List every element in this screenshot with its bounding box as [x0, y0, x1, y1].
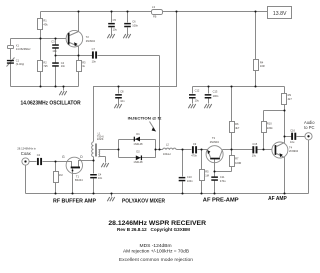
svg-text:28.1246MHz in: 28.1246MHz in: [17, 146, 36, 150]
svg-text:C16: C16: [290, 129, 295, 133]
svg-text:Rev B 26.8.12 Copyright G3XB: Rev B 26.8.12 Copyright G3XBM: [117, 227, 190, 232]
svg-text:POLYAKOV MIXER: POLYAKOV MIXER: [122, 198, 165, 204]
svg-text:D2: D2: [136, 149, 140, 153]
svg-text:C1: C1: [16, 58, 20, 62]
svg-text:4k7: 4k7: [288, 97, 293, 101]
svg-text:470u: 470u: [220, 179, 226, 183]
svg-text:to PC: to PC: [304, 125, 314, 130]
svg-text:C10: C10: [187, 175, 192, 179]
svg-text:100R: 100R: [235, 161, 241, 165]
svg-text:R5: R5: [205, 170, 209, 174]
svg-text:10R: 10R: [260, 64, 265, 68]
svg-text:100n: 100n: [213, 94, 219, 98]
svg-text:C3: C3: [51, 40, 55, 44]
svg-text:R2: R2: [43, 60, 47, 64]
svg-text:10n: 10n: [120, 99, 125, 103]
svg-text:2N3904: 2N3904: [289, 149, 299, 153]
svg-text:1N4148: 1N4148: [133, 160, 143, 164]
svg-text:C13: C13: [213, 90, 218, 94]
svg-text:G: G: [62, 155, 65, 159]
svg-text:RF BUFFER AMP: RF BUFFER AMP: [53, 198, 97, 204]
svg-text:2N3904: 2N3904: [210, 140, 220, 144]
svg-text:C6: C6: [132, 20, 136, 24]
svg-text:C4: C4: [98, 173, 102, 177]
svg-text:100n: 100n: [187, 179, 193, 183]
svg-text:10u: 10u: [290, 140, 295, 144]
svg-text:X1: X1: [16, 44, 20, 48]
svg-text:R10: R10: [267, 122, 272, 126]
svg-text:R6: R6: [235, 122, 239, 126]
svg-text:C4: C4: [61, 61, 65, 65]
svg-text:MDS -124dBm: MDS -124dBm: [140, 243, 172, 248]
svg-text:R4: R4: [260, 61, 264, 65]
svg-text:1N4148: 1N4148: [133, 142, 143, 146]
svg-text:220k: 220k: [267, 126, 273, 130]
svg-text:10u: 10u: [113, 28, 118, 32]
svg-text:C5: C5: [113, 18, 117, 22]
svg-text:1M: 1M: [59, 173, 63, 177]
svg-text:14.0623MHz OSCILLATOR: 14.0623MHz OSCILLATOR: [21, 101, 81, 107]
svg-text:10n: 10n: [92, 60, 97, 64]
svg-text:INJECTION @ f2: INJECTION @ f2: [128, 115, 163, 120]
svg-text:7k5: 7k5: [43, 64, 48, 68]
svg-text:10n: 10n: [98, 176, 103, 180]
svg-text:10n: 10n: [61, 64, 66, 68]
svg-text:R9: R9: [288, 93, 292, 97]
svg-text:FB: FB: [153, 14, 157, 18]
svg-text:(3-40p): (3-40p): [16, 62, 24, 66]
svg-text:AF PRE-AMP: AF PRE-AMP: [203, 197, 240, 203]
svg-text:C8: C8: [120, 89, 124, 93]
svg-text:C11: C11: [220, 175, 225, 179]
svg-text:C15: C15: [252, 142, 257, 146]
svg-text:AM rejection +/-100kHz = 70dB: AM rejection +/-100kHz = 70dB: [123, 249, 189, 254]
svg-text:10u: 10u: [252, 153, 257, 157]
svg-text:100uH: 100uH: [163, 152, 171, 156]
svg-text:14.0623MHz: 14.0623MHz: [16, 47, 31, 51]
svg-text:C7: C7: [92, 47, 96, 51]
svg-text:470n: 470n: [191, 154, 197, 158]
svg-text:D1: D1: [136, 132, 140, 136]
svg-text:C9: C9: [193, 142, 197, 146]
svg-text:10u: 10u: [195, 99, 200, 103]
svg-text:43k: 43k: [43, 22, 48, 26]
svg-text:C2: C2: [37, 153, 41, 157]
svg-text:100n: 100n: [132, 24, 138, 28]
svg-text:Coax: Coax: [21, 151, 32, 156]
svg-text:Excellent common mode rejectio: Excellent common mode rejection: [119, 257, 194, 262]
svg-text:1M: 1M: [205, 173, 209, 177]
svg-text:AF AMP: AF AMP: [268, 196, 287, 202]
svg-text:C12: C12: [195, 89, 200, 93]
svg-text:R7: R7: [235, 157, 239, 161]
svg-text:2N3904: 2N3904: [86, 39, 96, 43]
svg-text:BF244: BF244: [75, 178, 83, 182]
svg-text:22t/3t: 22t/3t: [97, 137, 104, 141]
svg-text:R3: R3: [82, 60, 86, 64]
svg-text:R1: R1: [43, 19, 47, 23]
svg-text:10n: 10n: [52, 49, 57, 53]
svg-text:4k7: 4k7: [235, 126, 240, 130]
svg-text:13.8V: 13.8V: [273, 11, 287, 17]
